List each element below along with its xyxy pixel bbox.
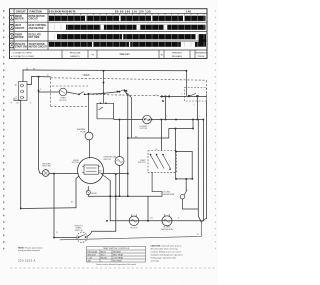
- heat rail segment right: [160, 95, 207, 97]
- heater element HTR: [176, 152, 193, 191]
- blower wheel B1: [129, 214, 139, 225]
- wire L2 bottom rail: [60, 218, 207, 240]
- svg-text:improper and dangerous operati: improper and dangerous operation.: [151, 253, 184, 256]
- bottom fold dashed line: [10, 267, 215, 269]
- terminal L1: [21, 84, 24, 87]
- terminal N: [21, 90, 24, 93]
- centrifugal switch contacts under motor: [86, 174, 128, 197]
- svg-text:controls. Wiring errors can ca: controls. Wiring errors can cause: [151, 250, 182, 253]
- svg-text:AIR: AIR: [88, 260, 92, 263]
- svg-text:3: 3: [11, 35, 13, 39]
- chart column line circuit: [13, 9, 15, 50]
- wire selector feed: [160, 120, 162, 151]
- contact dot relay b: [196, 95, 198, 97]
- hi-limit thermostat TH2: [162, 214, 172, 226]
- lower wiring: [54, 102, 207, 240]
- svg-text:5: 5: [194, 105, 195, 107]
- svg-text:TEMP SWITCH CONTROLS: TEMP SWITCH CONTROLS: [103, 248, 130, 250]
- door switch terminal dots: [100, 102, 107, 104]
- drive motor M1: [78, 158, 104, 184]
- chart scale ticks: [55, 13, 205, 15]
- wire L1 drop to relay contact: [185, 71, 187, 96]
- label TEMP SWITCH: [138, 160, 146, 164]
- wire L2 drop from block: [14, 100, 21, 208]
- wire relay out drop: [197, 96, 199, 119]
- svg-text:LOW: LOW: [88, 258, 93, 260]
- svg-text:220 1513 A: 220 1513 A: [18, 259, 36, 263]
- wire neutral bottom run: [21, 207, 76, 210]
- caution text: [151, 244, 184, 262]
- timer motor M2: [59, 71, 206, 196]
- svg-text:CIRCUIT: CIRCUIT: [29, 19, 39, 21]
- svg-text:BK-R: BK-R: [101, 252, 106, 254]
- svg-text:REGULAR: REGULAR: [70, 51, 81, 54]
- svg-text:MOTOR: MOTOR: [72, 162, 80, 164]
- svg-text:1: 1: [11, 16, 13, 20]
- junction timer rail b: [103, 93, 105, 95]
- svg-text:CIRCUIT: CIRCUIT: [16, 10, 26, 13]
- cycling thermostat TH1: [180, 190, 198, 209]
- wire drop from start rail: [147, 196, 149, 221]
- junction timer rail a: [88, 93, 90, 95]
- wire L1 riser: [22, 70, 24, 82]
- label TIMER MOTOR: [59, 98, 67, 102]
- svg-text:W: W: [56, 232, 58, 234]
- motor internal winding line: [86, 167, 97, 169]
- wire color labels: [11, 68, 202, 236]
- contact dot T1 a: [78, 94, 80, 96]
- timer rail wire: [85, 92, 120, 95]
- perforation dots are decorative: [3, 10, 216, 249]
- svg-text:FUNCTION: FUNCTION: [29, 10, 42, 13]
- svg-text:○ CONTACTS OPEN: ○ CONTACTS OPEN: [11, 51, 32, 54]
- timer sequence chart: [10, 9, 208, 59]
- chart outer border: [10, 9, 208, 59]
- wire bottom mid run: [110, 220, 203, 222]
- contact arrows relay: [188, 95, 191, 98]
- wire timer motor to contact T1: [67, 92, 79, 94]
- svg-text:and grounding required.: and grounding required.: [18, 249, 40, 252]
- wire heater feed drop: [175, 129, 177, 152]
- svg-text:MED HEAT: MED HEAT: [113, 254, 124, 257]
- svg-text:START SW: START SW: [15, 46, 28, 49]
- wire cooldown stat feed: [119, 120, 121, 157]
- wire heater to cycling stat: [185, 179, 187, 190]
- wire heat drop b: [126, 93, 132, 139]
- wire cooldown stat out: [119, 165, 121, 196]
- wire right rail: [206, 102, 208, 219]
- svg-text:HEAT: HEAT: [15, 24, 22, 27]
- wire L1 top rail: [23, 69, 186, 72]
- wire push start feed: [54, 236, 77, 238]
- contact dot T2 b: [124, 90, 126, 92]
- temperature selector switch S3: [148, 151, 176, 173]
- svg-text:REGULATE: REGULATE: [29, 34, 42, 37]
- wire drop to door switch: [103, 71, 105, 104]
- contact arrows heat: [161, 95, 164, 98]
- contact arrows T2: [117, 90, 120, 92]
- wiring diagram: [14, 70, 186, 209]
- svg-text:WRINKLE: WRINKLE: [172, 52, 183, 54]
- svg-text:SWITCH: SWITCH: [75, 230, 83, 232]
- svg-text:REGULAR: REGULAR: [88, 251, 98, 254]
- svg-text:LOW HEAT: LOW HEAT: [113, 257, 124, 260]
- svg-text:—: —: [101, 261, 103, 263]
- label CENTRIFUGAL SWITCH: [103, 155, 116, 160]
- svg-text:2M: 2M: [99, 170, 102, 172]
- svg-text:W: W: [197, 234, 199, 236]
- wire neutral from block: [27, 77, 51, 85]
- contact 2M lever: [102, 174, 111, 180]
- svg-text:● CONTACTS CLOSED: ● CONTACTS CLOSED: [11, 55, 35, 58]
- label THERMAL FUSE: [76, 128, 86, 133]
- svg-text:THERMOSTAT: THERMOSTAT: [161, 228, 175, 231]
- wire motor bottom stub: [87, 186, 89, 190]
- svg-text:HI HEAT: HI HEAT: [113, 251, 122, 254]
- wire 5M to start rail: [87, 195, 89, 197]
- junction heat rail left: [165, 96, 167, 98]
- junction at block bottom: [13, 98, 15, 100]
- svg-text:HEAT CONTROL: HEAT CONTROL: [29, 24, 48, 27]
- wire rail to thermal fuse: [88, 94, 90, 132]
- svg-text:CUTOFF: CUTOFF: [140, 128, 148, 130]
- wire start winding rail: [88, 195, 162, 197]
- svg-text:START DRYER: START DRYER: [29, 43, 45, 46]
- label CYCLING THERMOSTAT: [162, 192, 176, 196]
- chart column line function: [27, 9, 29, 50]
- label BELT SW: [43, 163, 52, 167]
- terminal block TB: [19, 82, 28, 101]
- svg-text:MOTOR: MOTOR: [15, 19, 24, 21]
- thermal fuse F1: [85, 94, 93, 158]
- chart row lines: [10, 12, 208, 14]
- svg-text:THERMOSTAT: THERMOSTAT: [162, 193, 176, 196]
- wire door switch to hi-temp fuse: [97, 118, 143, 121]
- svg-text:CAUTION: Label all wires prior: CAUTION: Label all wires prior to: [151, 244, 183, 247]
- wire motor neutral riser: [76, 176, 79, 208]
- svg-text:Contact may be affected by ope: Contact may be affected by operation of …: [96, 263, 136, 266]
- wire timer motor feed: [39, 91, 60, 93]
- svg-text:DRY TIME: DRY TIME: [29, 37, 40, 39]
- wire push start return: [87, 174, 116, 236]
- svg-text:W: W: [11, 103, 13, 105]
- wire cutoff to heater feed: [151, 119, 203, 121]
- svg-text:TIME DRY: TIME DRY: [119, 54, 130, 56]
- label PUSH TO START: [74, 225, 83, 232]
- svg-text:PRESS: PRESS: [198, 56, 205, 58]
- wire neutral drop to belt switch: [39, 77, 43, 174]
- svg-text:RELEASE: RELEASE: [172, 55, 183, 58]
- wire heat rail drop a: [165, 96, 167, 119]
- label HI-LIMIT THERMOSTAT: [161, 227, 175, 231]
- svg-text:W: W: [156, 149, 158, 151]
- push-start relay dashed box: [185, 88, 207, 102]
- cool-down thermostat TH4: [115, 157, 124, 166]
- timer dashed enclosure: [51, 78, 207, 107]
- svg-text:PERMANENT: PERMANENT: [195, 51, 208, 54]
- svg-text:NO HEAT: NO HEAT: [113, 260, 123, 263]
- chart column line bars start: [47, 9, 49, 50]
- wire push start riser: [53, 174, 55, 238]
- wire aux drop b: [202, 120, 204, 221]
- svg-text:MOTOR CIRCUIT: MOTOR CIRCUIT: [29, 47, 48, 49]
- svg-text:2: 2: [11, 25, 13, 29]
- svg-text:MEDIUM: MEDIUM: [88, 255, 96, 257]
- contact T1 lever: [79, 92, 84, 95]
- hi-temp cutoff TH3: [143, 115, 204, 124]
- wire selector out: [152, 172, 162, 196]
- terminal L2: [21, 96, 24, 99]
- label HI-TEMP CUTOFF: [140, 126, 149, 130]
- svg-text:Verify proper operation after: Verify proper operation after: [151, 256, 177, 259]
- wire heat run stepped: [128, 119, 193, 138]
- svg-text:disconnection when servicing: disconnection when servicing: [151, 247, 179, 250]
- svg-text:80 90 100 110 120 130: 80 90 100 110 120 130: [115, 10, 151, 14]
- svg-text:W: W: [47, 75, 49, 77]
- contact dot T2 a: [118, 91, 120, 93]
- svg-text:SWITCH: SWITCH: [138, 162, 146, 164]
- svg-text:TIMER: TIMER: [82, 75, 89, 77]
- wire motor heat drop: [127, 96, 129, 197]
- chart bars: [49, 16, 206, 47]
- motor terminal ticks: [82, 166, 84, 168]
- svg-text:SWITCH: SWITCH: [103, 159, 111, 161]
- door switch frame: [97, 103, 114, 119]
- svg-text:AND HEATER: AND HEATER: [29, 27, 44, 30]
- svg-text:140: 140: [186, 10, 191, 14]
- contact dot T1 b: [84, 93, 86, 95]
- svg-text:CIRCUIT: CIRCUIT: [15, 28, 25, 30]
- svg-text:FUSE: FUSE: [80, 132, 86, 134]
- svg-text:MOTOR: MOTOR: [15, 37, 24, 39]
- chart grid hairlines over bars: [55, 16, 205, 47]
- push to start switch S1: [77, 232, 87, 242]
- wire cycling stat out: [182, 199, 198, 209]
- wire motor 2M out: [101, 173, 128, 175]
- start contact circle 5M: [86, 190, 90, 194]
- svg-text:BK-BU: BK-BU: [101, 258, 108, 260]
- heat circuit verticals: [161, 96, 203, 222]
- svg-text:BELT SW: BELT SW: [43, 166, 51, 168]
- chart bar white gaps: [85, 16, 184, 47]
- wire run drop left: [109, 180, 111, 220]
- svg-text:BK-Y: BK-Y: [101, 255, 106, 257]
- wire contact T2 drop: [125, 91, 128, 96]
- svg-text:0·10·20·30·40·50·60·70: 0·10·20·30·40·50·60·70: [49, 10, 76, 14]
- svg-text:NOTE: Proper polarization: NOTE: Proper polarization: [18, 246, 43, 249]
- bottom note text: [18, 246, 43, 252]
- contact dot relay a: [189, 95, 191, 97]
- wire belt switch to motor: [49, 173, 79, 175]
- svg-text:FABRICS: FABRICS: [70, 55, 80, 58]
- door switch contact: [99, 107, 104, 110]
- temp switch table: [87, 247, 146, 263]
- belt switch S2: [42, 170, 78, 177]
- circled row numbers: [9, 15, 14, 48]
- svg-text:5M-BU: 5M-BU: [91, 193, 98, 195]
- chart row labels: [15, 16, 48, 49]
- contact T2 lever: [119, 89, 125, 91]
- chart header text: [16, 10, 42, 13]
- svg-text:4: 4: [11, 44, 13, 48]
- svg-text:servicing.: servicing.: [151, 259, 160, 262]
- relay contact lever: [190, 93, 196, 96]
- wire thermal fuse to motor: [89, 140, 91, 159]
- svg-text:MOTOR: MOTOR: [59, 100, 67, 102]
- svg-text:MOTOR: MOTOR: [130, 228, 138, 230]
- label DRIVE MOTOR: [72, 160, 80, 164]
- door switch assembly: [97, 71, 143, 120]
- wire aux drop a: [198, 120, 201, 223]
- chart legend row: [62, 50, 195, 59]
